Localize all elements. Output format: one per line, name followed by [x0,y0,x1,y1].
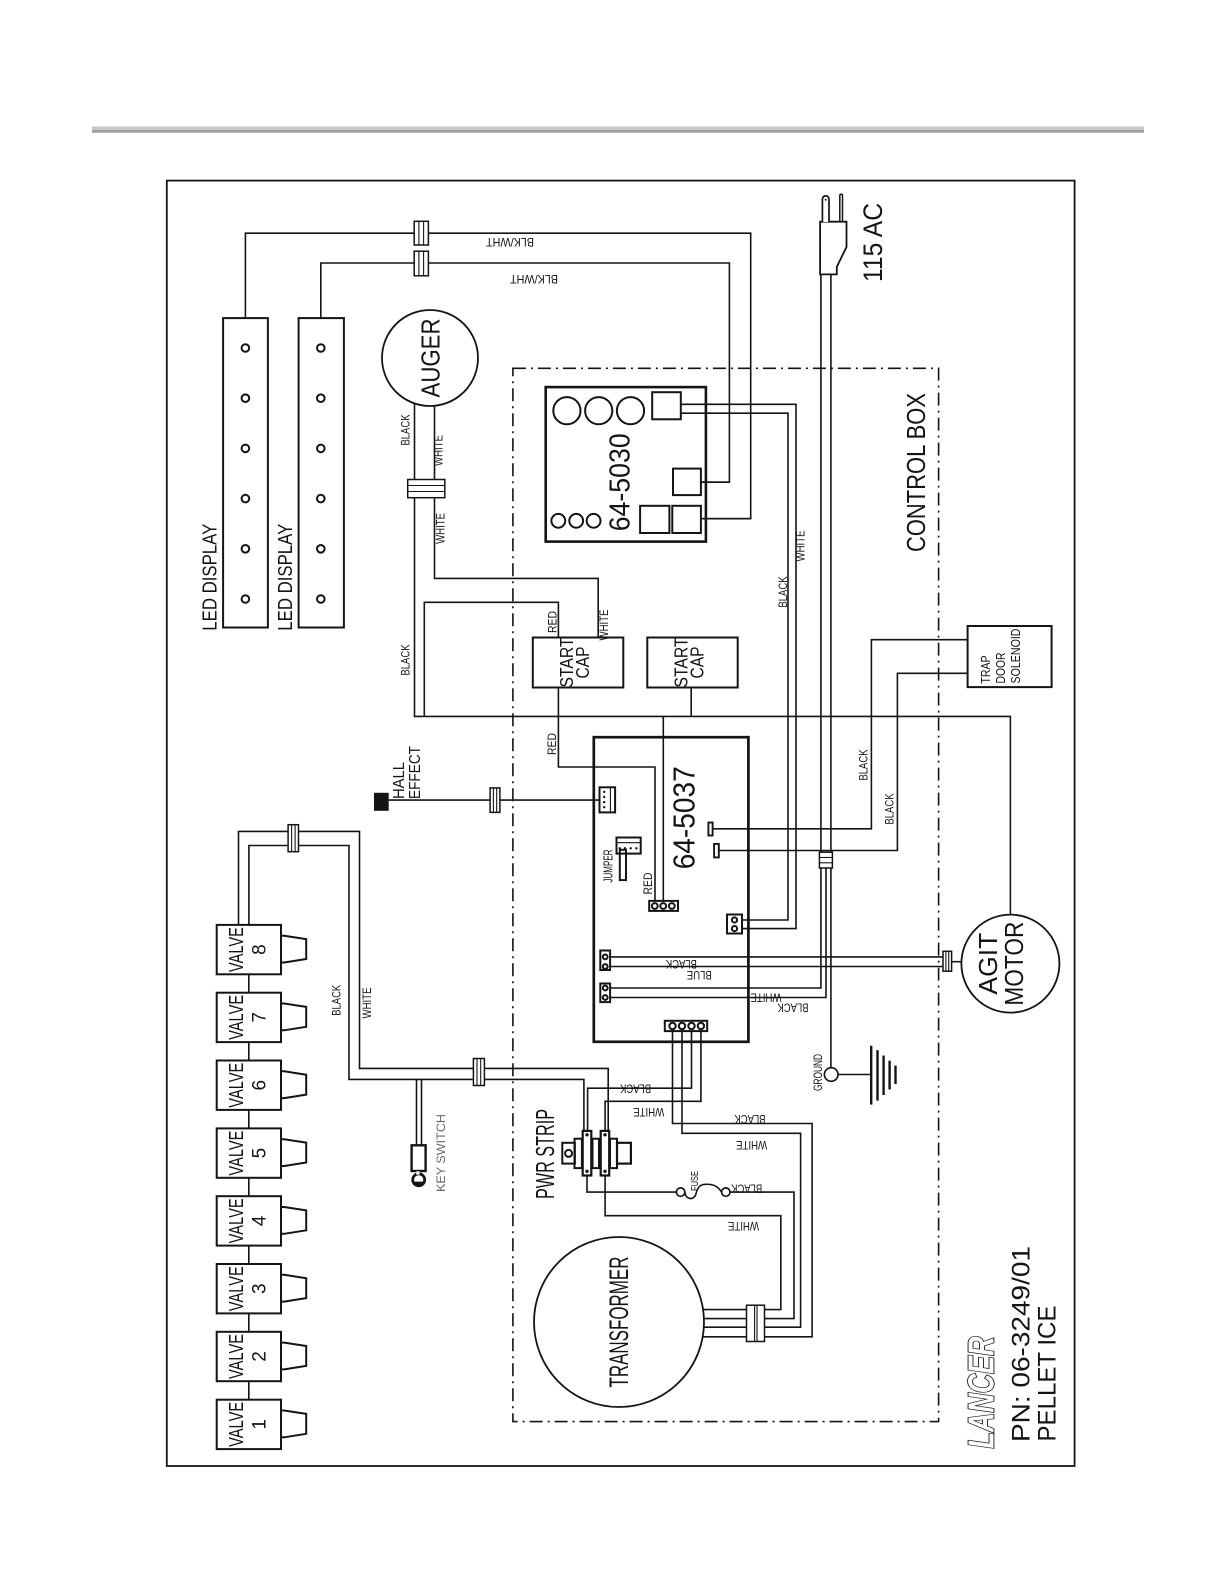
cable bead on valve pair wires [288,825,298,852]
svg-text:WHITE: WHITE [362,987,374,1018]
svg-text:VALVE: VALVE [226,1131,248,1176]
cable bead on LED display 2 wire [414,251,428,276]
pwr strip left bracket [575,1139,582,1168]
transformer [534,1237,704,1407]
svg-text:WHITE: WHITE [599,609,611,640]
pwr strip right bracket [610,1139,617,1168]
svg-text:64-5037: 64-5037 [667,766,702,869]
svg-text:WHITE: WHITE [436,513,448,544]
wire: pwr strip cartridge 2 bottom to transformer lead 1 (white) [605,1176,781,1310]
AC plug prong 2 [840,194,843,222]
svg-text:WHITE: WHITE [750,991,781,1003]
svg-text:BLACK: BLACK [666,957,697,969]
svg-text:WHITE: WHITE [633,1105,664,1117]
cable bead on transformer leads [747,1305,765,1341]
pwr strip cartridge 2 [601,1131,610,1176]
wire: 64-5037 to agit motor (blue) [610,966,943,968]
cable bead on agit motor wires [943,951,952,971]
valve 7 [217,993,281,1042]
svg-text:VALVE: VALVE [226,1402,248,1447]
fuse [676,1188,684,1196]
svg-text:WHITE: WHITE [728,1219,759,1231]
valve 3 [217,1264,281,1313]
svg-text:AUGER: AUGER [416,319,446,398]
wire: 64-5030 top square black lead to 64-5037 right connector [681,413,788,920]
svg-text:BLACK: BLACK [620,1081,651,1093]
LED display 2 [299,318,344,627]
jumper shunt [620,850,626,880]
svg-text:LED DISPLAY: LED DISPLAY [275,524,297,631]
wire: ground circle to earth symbol [838,1074,871,1076]
svg-text:BLACK: BLACK [778,576,790,607]
ground circle [824,1068,838,1082]
svg-text:BLACK: BLACK [401,644,413,675]
wire: transformer leads to bead [703,1310,747,1337]
svg-text:BLUE: BLUE [687,968,712,980]
cable ferrule on AC cord [819,852,832,868]
valve 1 [217,1400,281,1449]
svg-text:8: 8 [250,944,271,955]
wire: valve 8 white chain to pwr strip [239,831,609,1131]
svg-text:WHITE: WHITE [736,1138,767,1150]
svg-text:6: 6 [250,1080,271,1091]
svg-text:64-5030: 64-5030 [605,433,637,531]
svg-text:AGITMOTOR: AGITMOTOR [973,922,1029,1006]
valve 2 [217,1332,281,1381]
svg-text:VALVE: VALVE [226,1063,248,1108]
wire: fuse to transformer lead 2 (black) [730,1192,794,1319]
svg-text:RED: RED [643,873,655,895]
svg-text:BLACK: BLACK [859,749,871,780]
svg-text:BLACK: BLACK [734,1112,765,1124]
wire: junction line drop to 3-pin connector [662,716,664,901]
cable bead on valve white wire [473,1059,484,1086]
auger motor circle [382,310,478,406]
svg-text:3: 3 [250,1283,271,1294]
key switch body [412,1145,426,1171]
svg-text:LANCER: LANCER [961,1337,1002,1449]
wire: start cap 2 drop to junction line [690,688,692,717]
svg-text:LED DISPLAY: LED DISPLAY [200,524,222,631]
wire: hall effect sensor to 64-5037 [389,799,600,801]
svg-text:RED: RED [547,733,559,755]
control box boundary (dash-dot) [513,368,939,1421]
key switch keyhole [413,1174,425,1186]
svg-text:2: 2 [250,1351,271,1362]
LED display 1 [223,318,268,627]
valve 5 [217,1128,281,1177]
svg-text:PELLET ICE: PELLET ICE [1034,1306,1062,1442]
spade terminal 1 [708,823,712,836]
wire: valve 8 black chain to pwr strip [249,846,584,1131]
wire: key switch tap pair [417,1079,422,1145]
wire: AC cord white conductor to 64-5037 connector [610,274,821,988]
svg-text:FUSE: FUSE [689,1171,701,1191]
svg-text:5: 5 [250,1148,271,1159]
wire: AC cord black conductor below ferrule to 64-5037 connector [610,868,826,998]
drawing border frame [167,181,1075,1466]
svg-text:WHITE: WHITE [796,530,808,561]
svg-text:VALVE: VALVE [226,995,248,1040]
svg-text:115 AC: 115 AC [858,203,888,282]
svg-text:7: 7 [250,1012,271,1023]
svg-text:WHITE: WHITE [434,435,446,466]
4-pin bottom connector [665,1021,707,1031]
wire: auger white lead to start cap 1 [435,406,599,638]
AC plug prong 1 [822,196,829,222]
svg-text:BLACK: BLACK [777,1001,808,1013]
wire: start cap 1 red lead upper loop to junction [424,602,558,716]
valve 4 [217,1196,281,1245]
wire: 64-5037 pin3 to pwr strip cartridge 1 [588,1031,692,1131]
agit motor [961,915,1059,1013]
svg-text:JUMPER: JUMPER [602,850,616,883]
svg-text:1: 1 [250,1419,271,1430]
svg-text:PWR STRIP: PWR STRIP [530,1109,560,1199]
pwr strip cartridge 1 [583,1131,592,1176]
svg-text:VALVE: VALVE [226,927,248,972]
svg-text:CONTROL BOX: CONTROL BOX [901,393,931,552]
64-5030 control board [546,387,706,541]
pwr strip left plate [562,1143,575,1164]
wire: LED display 1 to 64-5030 board (BLK/WHT) [245,233,750,519]
64-5037 hall connector [600,787,616,812]
spade terminal 2 [714,844,719,858]
wire: valve daisy chain [248,974,250,1399]
pwr strip right plate [617,1143,631,1164]
wire: 64-5037 pin1 black to transformer lead 4 [673,1031,813,1337]
wire: auger black lead to junction line and agit motor [415,404,1011,915]
AC plug body [820,222,846,275]
cable bead on LED display 1 wire [414,221,428,245]
cable bead on hall effect wire [490,788,500,813]
pwr strip middle bracket [593,1139,600,1168]
wire: 64-5037 pin2 white to transformer lead 3 [682,1031,801,1327]
wire: 64-5037 pin4 to pwr strip cartridge 2 [605,1031,701,1131]
valve 8 [217,925,281,974]
64-5037 control board [594,737,749,1042]
wire: 64-5030 middle square stub [701,481,730,483]
hall effect sensor [374,793,389,811]
start cap 1 [533,638,624,688]
cable bead on auger leads [408,480,445,498]
wire: AC cord ground conductor to ground point [830,274,832,1067]
valve 6 [217,1061,281,1110]
earth ground symbol [870,1046,872,1105]
svg-text:PN: 06-3249/01: PN: 06-3249/01 [1008,1246,1036,1442]
svg-text:4: 4 [250,1215,271,1226]
3-pin connector [649,901,678,911]
wire: 64-5030 bottom square stub [701,518,751,520]
wire: 64-5037 to agit motor (black) [610,956,943,958]
svg-text:BLK/WHT: BLK/WHT [509,272,558,286]
svg-text:VALVE: VALVE [226,1266,248,1311]
svg-text:VALVE: VALVE [226,1334,248,1379]
svg-text:BLACK: BLACK [885,793,897,824]
wire: 64-5030 top square white lead to 64-5037 right connector [681,404,796,928]
pwr strip contact bands [582,1143,592,1148]
svg-text:VALVE: VALVE [226,1198,248,1243]
svg-text:BLK/WHT: BLK/WHT [485,235,534,249]
svg-text:BLACK: BLACK [401,414,413,445]
svg-text:RED: RED [548,611,560,633]
svg-text:BLACK: BLACK [332,985,344,1016]
wire: start cap 1 red lead lower to 3-pin connector [558,688,655,901]
start cap 2 [647,638,737,688]
svg-text:GROUND: GROUND [813,1054,825,1091]
jumper header [617,838,641,854]
wire: LED display 2 to 64-5030 board (BLK/WHT) [321,263,730,482]
wire: 64-5037 spade 2 to trap door solenoid (black) [719,673,968,850]
left 2-pin connector A [600,951,610,971]
page divider bar [92,127,1144,130]
wire: agit motor stub [952,961,962,963]
wire: 64-5037 spade 1 to trap door solenoid (black) [713,640,968,829]
wire: pwr strip cartridge 1 bottom to fuse [587,1176,676,1193]
svg-text:TRANSFORMER: TRANSFORMER [604,1257,634,1388]
svg-text:BLACK: BLACK [731,1182,762,1194]
right 2-pin connector [727,915,742,934]
svg-text:KEY SWITCH: KEY SWITCH [436,1114,448,1192]
trap door solenoid box [968,626,1052,687]
left 2-pin connector B [600,984,610,1003]
